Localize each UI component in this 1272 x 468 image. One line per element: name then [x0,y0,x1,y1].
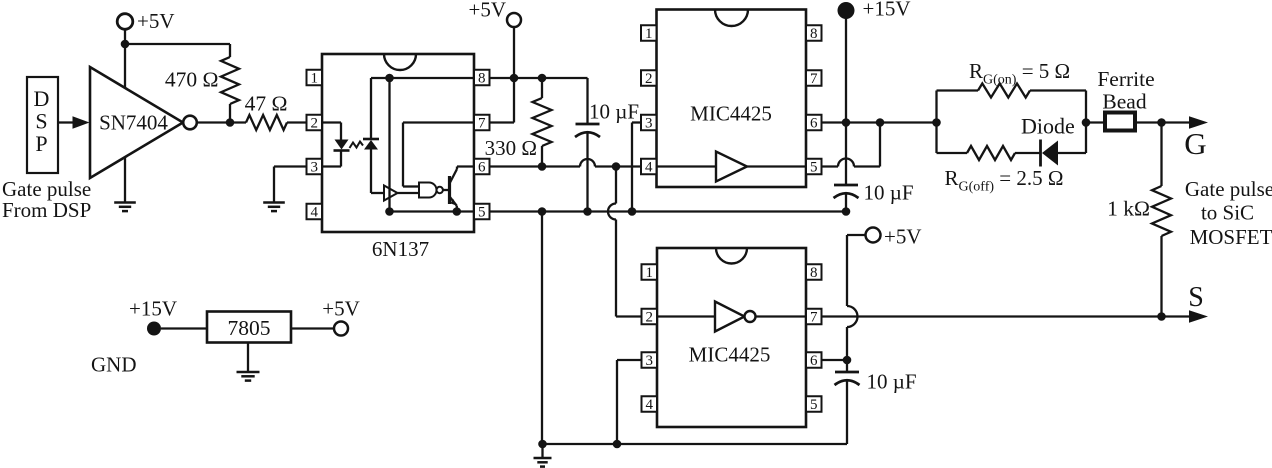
pin 5 (6N137) [474,204,490,220]
pin 8 (U4) [806,264,822,280]
resistor R 470 ohm [229,44,231,57]
svg-text:+5V: +5V [137,9,175,33]
wire 7805 to +5V [291,327,334,329]
transistor emitter [450,197,457,206]
svg-text:D: D [34,86,50,111]
svg-text:6N137: 6N137 [372,237,429,261]
pin 2 (U3) [641,70,657,86]
node Vcc/+5V [510,74,519,83]
wire C3 to bottom rail [846,381,848,444]
wire collector to pin 6 [457,165,474,167]
wire +5V to 470R [125,43,230,45]
driver U4 MIC4425 (lower) body [657,248,806,427]
svg-text:6: 6 [810,353,818,369]
6N137 notch [384,54,416,70]
wire: U3 pin5 join pin6 [822,165,839,167]
resistor RG(on) 5 ohm branch [935,91,937,123]
capacitor C2 10uF [834,184,858,187]
opto-coupler U2 6N137 body [322,54,474,232]
node gnd/U3 pin3 [628,207,637,216]
node main ground [538,440,547,449]
wire pin8 Vcc rail [490,77,588,79]
wire +15V to C2 [845,123,847,186]
pin 4 (6N137) [307,204,323,220]
wire +5V left [847,234,866,236]
wire +5V down [513,27,515,78]
svg-text:Gate pulse: Gate pulse [1185,177,1272,201]
wire U4 pin6 [822,359,848,361]
power terminal +5V (opto) [507,13,521,27]
wire 47R to opto pin2 [287,121,307,123]
wire hop over S net [847,306,858,327]
svg-text:47 Ω: 47 Ω [245,92,288,116]
svg-text:2: 2 [645,71,653,87]
wire: main ground drop [541,212,543,445]
wire: U3 pin3 to gnd rail [632,121,641,123]
wire: opto pin6 output net [490,165,581,167]
U4 notch [716,248,747,264]
power terminal +5V (U4) [866,228,881,243]
node gnd/main-gnd drop [538,207,547,216]
svg-text:Bead: Bead [1102,90,1146,114]
wire +5V into SN7404 [124,44,126,88]
svg-text:Ferrite: Ferrite [1097,67,1154,91]
pin 1 (U4) [642,264,658,280]
6N137 internal buffer triangle [384,186,398,201]
wire photodiode top [370,78,372,139]
wire: pin7 enable internal [403,121,474,123]
svg-text:10 µF: 10 µF [864,181,914,205]
6N137 internal photodiode [363,138,379,141]
wire +5V stem [124,28,126,44]
svg-text:5: 5 [810,160,818,176]
pin 5 (U4) [806,396,822,412]
wire: gnd rail (opto pin5) [490,210,847,212]
node S/1k [1157,312,1166,321]
U4 internal inverter [657,315,715,317]
ground (main) [534,457,552,460]
pin 6 (U4) [806,352,822,368]
ferrite bead FB1 [1086,121,1105,123]
pin 6 (6N137) [474,159,490,175]
pin 2 (U4) [642,309,658,325]
pin 7 (6N137) [474,115,490,131]
svg-text:6: 6 [810,116,818,132]
node bottom rail/U3 pin3 [613,440,622,449]
node emitter/gnd [453,207,462,216]
op-amp/inverter U1 SN7404 [90,67,183,178]
svg-text:5: 5 [478,205,486,221]
wire: internal Vcc rail from pin 8 [371,77,474,79]
wire C1 to gnd rail [586,133,588,212]
svg-text:MOSFET: MOSFET [1190,225,1272,249]
svg-text:1 kΩ: 1 kΩ [1107,197,1150,221]
diode D1 [1039,140,1042,167]
pin 3 (U4) [642,352,658,368]
wire +15V to 7805 [161,327,207,329]
regulator U5 7805 [207,312,291,343]
svg-text:From DSP: From DSP [2,198,91,222]
wire: SN7404 output [197,121,246,123]
svg-text:MIC4425: MIC4425 [689,343,771,367]
wire internal bias line (crosses buffer) [388,78,390,212]
node gnd/C1 [583,207,592,216]
wire internal gnd rail [390,210,475,212]
driver U3 MIC4425 (upper) body [657,10,807,188]
pin 6 (U3) [806,115,822,131]
node +15V/pin6 [842,118,851,127]
wire +15V down [845,11,847,125]
svg-text:S: S [1188,282,1204,313]
pin 8 (U3) [806,25,822,41]
svg-text:Diode: Diode [1021,114,1075,139]
svg-text:2: 2 [646,310,654,326]
U3 internal buffer [657,165,717,167]
wire C2 to gnd rail [845,194,847,212]
node internal Vcc [385,74,394,83]
wire: source net S [822,315,1190,317]
pin 7 (U3) [806,70,822,86]
wire: DSP output arrow [58,121,74,123]
resistor R 1k ohm [1160,123,1162,187]
wire hop over gnd rail [608,204,616,220]
ground (opto input) [263,201,285,204]
svg-text:6: 6 [478,160,486,176]
inverter bubble [183,116,197,130]
svg-text:1: 1 [645,26,653,42]
node gnd/C2 [842,207,851,216]
pin 5 (U3) [806,159,822,175]
resistor RG(off) 2.5 ohm branch [935,123,937,154]
svg-text:10 µF: 10 µF [589,100,639,124]
6N137 internal LED [322,121,341,123]
svg-text:S: S [35,109,47,134]
node: 470R/output junction [226,118,235,127]
svg-text:470 Ω: 470 Ω [165,68,219,92]
svg-text:7: 7 [478,116,486,132]
svg-text:5: 5 [810,397,818,413]
svg-text:7805: 7805 [228,316,271,340]
U3 notch [715,10,748,27]
light coupling squiggle [350,142,364,149]
svg-text:8: 8 [810,26,818,42]
pin 3 (U3) [641,115,657,131]
wire hop over +15V line [838,159,854,167]
svg-text:8: 8 [810,265,818,281]
node Vcc/330R [538,74,547,83]
capacitor C3 10uF [846,360,848,372]
svg-text:3: 3 [311,160,319,176]
svg-text:7: 7 [810,310,818,326]
wire: branch to lower driver input [615,167,617,204]
wire bottom gnd rail [543,443,848,445]
node internal gnd [385,207,394,216]
wire hop over C1 [580,159,595,167]
pin 3 (6N137) [307,159,323,175]
node +5V/pin6 (U4) [843,356,852,365]
pin 7 (U4) [806,309,822,325]
node G/1k [1157,118,1166,127]
wire: U4 pin3 to bottom gnd rail [617,359,642,361]
wire +5V down [846,235,848,306]
svg-text:10 µF: 10 µF [867,370,917,394]
resistor R 330 ohm [541,78,543,98]
svg-text:3: 3 [646,353,654,369]
svg-text:4: 4 [646,397,654,413]
power terminal +5V (SN7404) [117,14,133,30]
svg-text:SN7404: SN7404 [99,111,168,135]
svg-text:+5V: +5V [322,297,360,321]
svg-text:+15V: +15V [863,0,911,21]
wire SN7404 to ground [124,157,126,202]
pin 1 (6N137) [307,70,323,86]
svg-text:MIC4425: MIC4425 [690,102,772,126]
node: +5V junction [121,40,130,49]
svg-text:330 Ω: 330 Ω [485,136,537,160]
wire enable to Vcc [513,78,515,123]
pin 4 (U3) [641,159,657,175]
wire pin7 enable [490,121,515,123]
wire bead to G [1135,121,1189,123]
svg-text:3: 3 [645,116,653,132]
ground (7805) [237,371,260,374]
svg-text:+5V: +5V [468,0,506,22]
svg-text:1: 1 [311,71,319,87]
wire to ground symbol [541,444,543,458]
terminal arrow G [1189,116,1208,129]
wire: gate drive output net G [822,121,937,123]
pin 4 (U4) [642,396,658,412]
wire photodiode to buffer [370,150,372,194]
svg-text:to SiC: to SiC [1201,201,1254,225]
svg-text:G: G [1184,126,1206,161]
DSP box [27,77,58,173]
ground (SN7404) [114,201,136,204]
U4 inverter bubble [745,311,756,322]
svg-text:7: 7 [810,71,818,87]
wire: opto pin3 to ground [274,165,307,167]
pin 2 (6N137) [307,115,323,131]
svg-text:P: P [35,131,47,156]
node 330R/output [538,162,547,171]
pin 8 (6N137) [474,70,490,86]
power terminal +5V (7805 output) [334,322,348,336]
power terminal +15V (7805 input) [147,322,161,336]
svg-text:+15V: +15V [129,297,177,321]
6N137 internal AND gate [419,183,437,198]
wire 7805 to ground [247,343,249,372]
power terminal +15V [838,2,855,19]
terminal arrow S [1189,310,1208,323]
6N137 internal transistor [448,176,451,204]
node output branch [612,162,621,171]
svg-text:8: 8 [478,71,486,87]
gate output bubble [437,187,443,193]
node RG fork right [1082,118,1091,127]
wire Vcc to C1 [586,78,588,124]
svg-text:4: 4 [311,205,319,221]
svg-text:2: 2 [311,116,319,132]
wire buffer to gate [398,192,420,194]
resistor R 47 ohm [246,115,287,130]
svg-text:1: 1 [646,265,654,281]
node RG fork left [932,118,941,127]
wire gate to transistor [443,189,448,191]
pin 1 (U3) [641,25,657,41]
transistor collector [450,169,458,184]
svg-text:GND: GND [91,353,137,377]
svg-text:+5V: +5V [884,225,922,249]
svg-text:4: 4 [645,160,653,176]
node pin5/pin6 tie [876,118,885,127]
